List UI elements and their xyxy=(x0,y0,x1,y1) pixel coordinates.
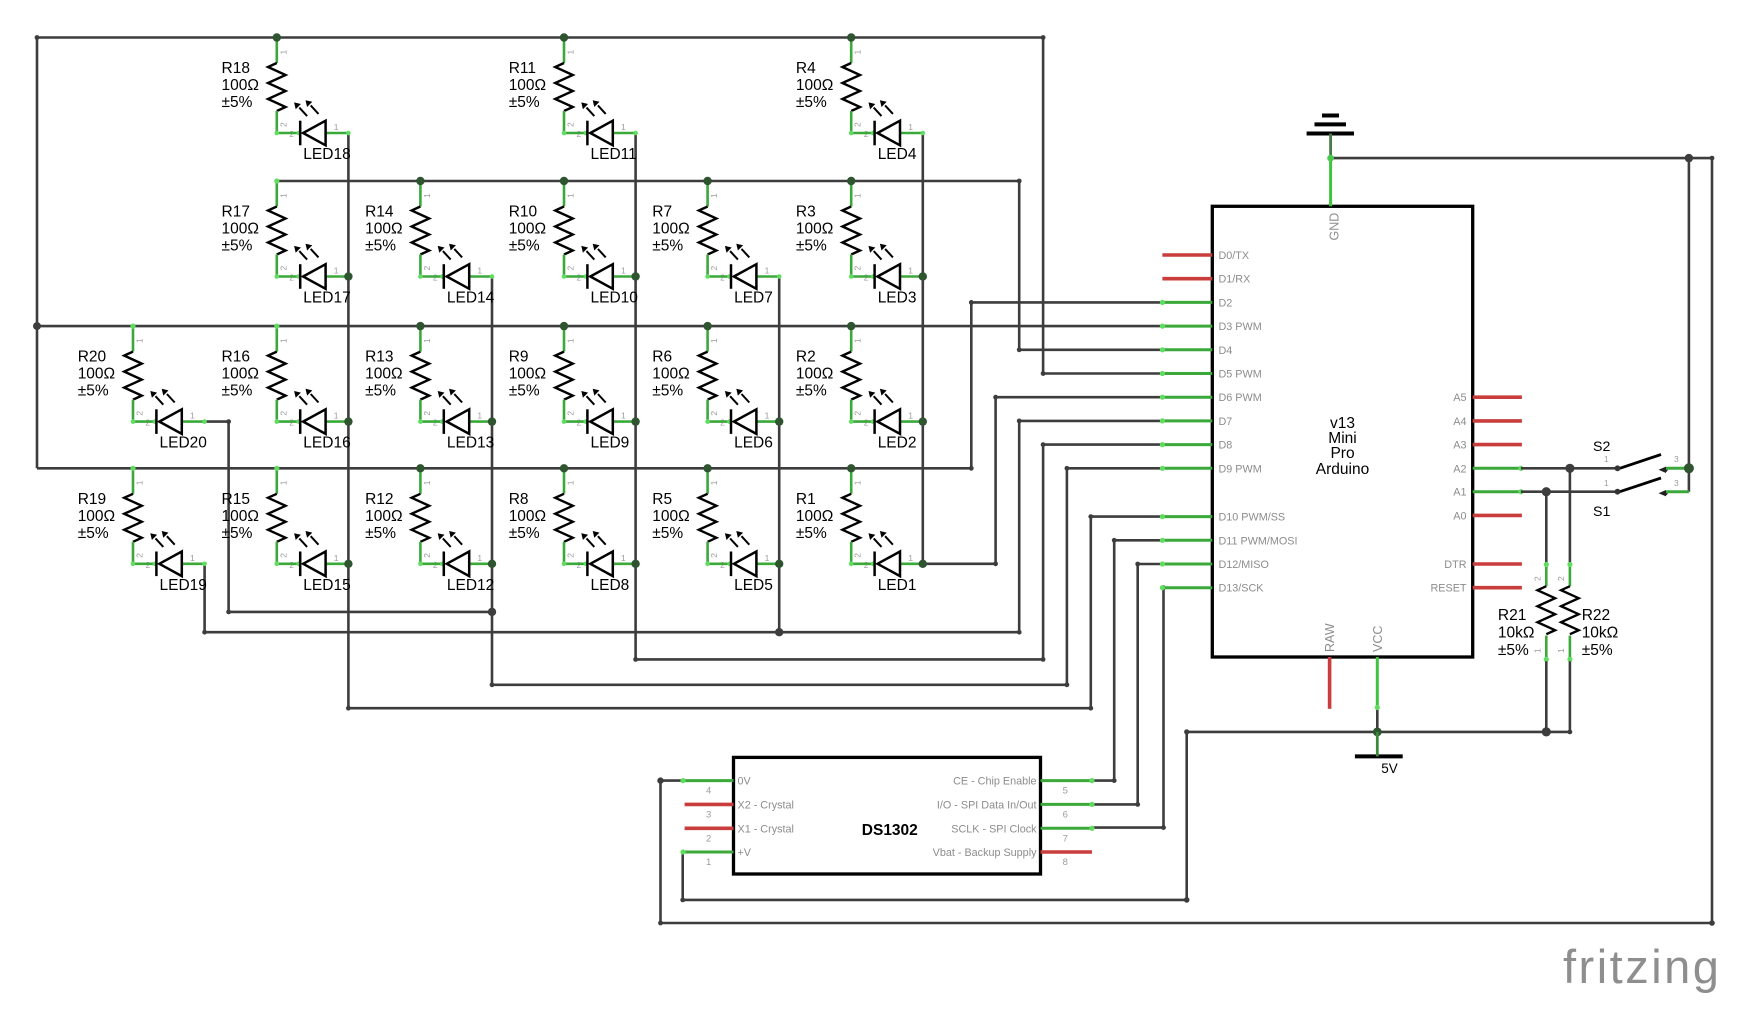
resistor R22 10k xyxy=(1556,468,1618,732)
svg-text:±5%: ±5% xyxy=(78,525,109,542)
LED LED6 xyxy=(705,389,781,452)
svg-text:±5%: ±5% xyxy=(222,383,253,400)
wire D2 to row4 rail xyxy=(969,300,1163,468)
pin D7 xyxy=(1160,416,1233,428)
svg-text:D11 PWM/MOSI: D11 PWM/MOSI xyxy=(1219,535,1298,547)
svg-text:±5%: ±5% xyxy=(222,525,253,542)
junction A1 / R21 xyxy=(1542,487,1551,496)
svg-text:100Ω: 100Ω xyxy=(796,221,833,238)
svg-text:1: 1 xyxy=(1604,454,1609,464)
svg-text:±5%: ±5% xyxy=(365,238,396,255)
svg-text:1: 1 xyxy=(422,338,432,343)
svg-text:LED16: LED16 xyxy=(303,435,350,452)
svg-text:A5: A5 xyxy=(1453,392,1466,404)
svg-text:LED18: LED18 xyxy=(303,146,350,163)
wire left bus vertical xyxy=(36,38,39,469)
pin A4 xyxy=(1453,416,1522,428)
pin D0/TX xyxy=(1162,250,1249,262)
LED LED7 xyxy=(705,244,781,307)
junction A2 / R22 xyxy=(1565,464,1574,473)
svg-text:100Ω: 100Ω xyxy=(509,221,546,238)
svg-text:D12/MISO: D12/MISO xyxy=(1219,559,1269,571)
junction GND wire xyxy=(1327,155,1334,162)
IC DS1302 RTC xyxy=(734,757,1041,874)
svg-text:R4: R4 xyxy=(796,60,816,77)
pin DS1302 5 CE - Chip Enable xyxy=(953,776,1095,797)
svg-text:A2: A2 xyxy=(1453,463,1466,475)
svg-text:±5%: ±5% xyxy=(365,383,396,400)
svg-text:2: 2 xyxy=(566,122,576,127)
svg-text:±5%: ±5% xyxy=(509,383,540,400)
wire D11 to DS1302 CE xyxy=(1092,538,1162,783)
svg-text:2: 2 xyxy=(1532,576,1542,581)
svg-text:1: 1 xyxy=(765,411,770,421)
svg-text:1: 1 xyxy=(477,411,482,421)
svg-text:LED4: LED4 xyxy=(878,146,917,163)
svg-text:2: 2 xyxy=(853,122,863,127)
svg-text:GND: GND xyxy=(1328,213,1342,241)
junction left bus / row3 rail xyxy=(33,322,41,330)
svg-text:RESET: RESET xyxy=(1431,583,1467,595)
svg-text:2: 2 xyxy=(853,266,863,271)
svg-text:1: 1 xyxy=(621,411,626,421)
resistor R14 xyxy=(365,178,438,282)
LED LED17 xyxy=(275,244,351,307)
svg-text:±5%: ±5% xyxy=(509,238,540,255)
svg-text:0V: 0V xyxy=(738,776,752,788)
svg-text:2: 2 xyxy=(566,553,576,558)
LED LED4 xyxy=(849,100,925,163)
svg-text:1: 1 xyxy=(765,553,770,563)
svg-text:1: 1 xyxy=(190,411,195,421)
svg-text:1: 1 xyxy=(706,857,711,868)
svg-text:LED15: LED15 xyxy=(303,577,350,594)
svg-text:100Ω: 100Ω xyxy=(652,366,689,383)
wire row2 rail net D4 xyxy=(277,179,1022,184)
svg-text:±5%: ±5% xyxy=(1582,642,1613,659)
svg-text:1: 1 xyxy=(278,193,288,198)
LED LED9 xyxy=(562,389,638,452)
svg-text:2: 2 xyxy=(706,833,711,844)
pin DS1302 8 Vbat - Backup Supply xyxy=(933,847,1092,868)
wire column5 anodes LED7-LED5 joins D7 line xyxy=(778,277,781,633)
wire D4 to row2 rail xyxy=(1017,181,1163,352)
switch S2 xyxy=(1521,439,1689,473)
LED LED10 xyxy=(562,244,639,307)
LED LED8 xyxy=(562,531,638,594)
svg-text:1: 1 xyxy=(566,338,576,343)
svg-text:2: 2 xyxy=(566,411,576,416)
junction R21 / 5V rail xyxy=(1542,727,1551,736)
svg-text:D0/TX: D0/TX xyxy=(1219,250,1250,262)
wire row4 rail net D2 xyxy=(37,466,974,471)
svg-text:±5%: ±5% xyxy=(796,94,827,111)
svg-text:1: 1 xyxy=(278,480,288,485)
svg-text:2: 2 xyxy=(709,266,719,271)
svg-text:1: 1 xyxy=(908,411,913,421)
wire GND net top xyxy=(657,156,1715,926)
svg-text:1: 1 xyxy=(566,193,576,198)
svg-text:100Ω: 100Ω xyxy=(365,366,402,383)
svg-text:A3: A3 xyxy=(1453,440,1466,452)
svg-text:S2: S2 xyxy=(1593,439,1610,455)
LED LED5 xyxy=(705,531,781,594)
svg-text:1: 1 xyxy=(1604,478,1609,488)
svg-text:Arduino: Arduino xyxy=(1316,461,1369,478)
wire column2 anodes LED18-LED15 to D10 xyxy=(346,133,1162,711)
svg-text:R22: R22 xyxy=(1582,607,1610,624)
svg-text:LED20: LED20 xyxy=(160,435,208,452)
svg-text:LED13: LED13 xyxy=(447,435,494,452)
resistor R11 xyxy=(509,35,582,139)
svg-text:X2 - Crystal: X2 - Crystal xyxy=(738,799,794,811)
pin GND xyxy=(1328,158,1342,240)
svg-text:1: 1 xyxy=(477,266,482,276)
wire 5V rail xyxy=(680,729,1570,902)
LED LED3 xyxy=(849,244,925,307)
LED LED13 xyxy=(418,389,494,452)
wire D5 to row1 rail xyxy=(1041,38,1163,376)
svg-text:100Ω: 100Ω xyxy=(365,508,402,525)
resistor R21 10k xyxy=(1498,492,1555,732)
svg-text:LED11: LED11 xyxy=(591,146,637,163)
svg-text:7: 7 xyxy=(1063,833,1068,844)
wire row1 rail net D5 xyxy=(35,35,1046,40)
svg-text:100Ω: 100Ω xyxy=(365,221,402,238)
resistor R17 xyxy=(222,178,295,282)
pin RAW xyxy=(1323,623,1337,709)
resistor R13 xyxy=(365,324,438,428)
svg-text:1: 1 xyxy=(621,266,626,276)
svg-text:VCC: VCC xyxy=(1371,626,1385,652)
pin A2 xyxy=(1453,463,1523,475)
wire switch common vertical xyxy=(1688,158,1691,492)
svg-text:1: 1 xyxy=(765,266,770,276)
resistor R16 xyxy=(222,324,295,428)
svg-text:6: 6 xyxy=(1063,809,1068,820)
pin DS1302 3 X2 - Crystal xyxy=(685,799,794,820)
svg-text:A0: A0 xyxy=(1453,510,1466,522)
pin DS1302 7 SCLK - SPI Clock xyxy=(951,823,1094,844)
ground symbol xyxy=(1307,116,1354,159)
svg-text:1: 1 xyxy=(190,553,195,563)
svg-text:100Ω: 100Ω xyxy=(222,366,259,383)
svg-text:±5%: ±5% xyxy=(796,525,827,542)
svg-text:100Ω: 100Ω xyxy=(652,508,689,525)
svg-text:2: 2 xyxy=(853,553,863,558)
pin A0 xyxy=(1453,510,1522,522)
svg-text:DS1302: DS1302 xyxy=(862,822,918,839)
svg-text:LED8: LED8 xyxy=(591,577,630,594)
svg-text:D5 PWM: D5 PWM xyxy=(1219,369,1262,381)
svg-text:R9: R9 xyxy=(509,349,529,366)
junction resistor tops on rails xyxy=(273,33,856,472)
svg-text:2: 2 xyxy=(135,553,145,558)
resistor R12 xyxy=(365,466,438,570)
resistor R1 xyxy=(796,466,869,570)
svg-text:R2: R2 xyxy=(796,349,816,366)
svg-text:1: 1 xyxy=(908,266,913,276)
svg-text:LED19: LED19 xyxy=(160,577,207,594)
svg-text:100Ω: 100Ω xyxy=(796,77,833,94)
svg-text:2: 2 xyxy=(566,266,576,271)
svg-text:I/O - SPI Data In/Out: I/O - SPI Data In/Out xyxy=(937,799,1037,811)
svg-text:D4: D4 xyxy=(1219,345,1233,357)
svg-text:100Ω: 100Ω xyxy=(652,221,689,238)
resistor R19 xyxy=(78,466,151,570)
pin D2 xyxy=(1160,297,1233,309)
svg-text:R10: R10 xyxy=(509,204,538,221)
svg-text:100Ω: 100Ω xyxy=(78,508,115,525)
junction VCC / 5V rail xyxy=(1373,728,1382,737)
junction LED anode columns xyxy=(344,272,927,568)
wire D12 to DS1302 I/O xyxy=(1092,562,1162,807)
resistor R9 xyxy=(509,324,582,428)
svg-text:LED1: LED1 xyxy=(878,577,917,594)
svg-text:D2: D2 xyxy=(1219,297,1233,309)
pin D13/SCK xyxy=(1160,583,1265,595)
svg-text:LED9: LED9 xyxy=(591,435,630,452)
svg-text:D3 PWM: D3 PWM xyxy=(1219,321,1262,333)
svg-text:S1: S1 xyxy=(1593,504,1610,520)
svg-text:±5%: ±5% xyxy=(365,525,396,542)
LED LED11 xyxy=(562,100,638,163)
pin D6 PWM xyxy=(1160,392,1262,404)
junction column5 / D7 line xyxy=(775,628,783,636)
pin DS1302 2 X1 - Crystal xyxy=(685,823,794,844)
svg-text:1: 1 xyxy=(334,411,339,421)
LED LED15 xyxy=(275,531,351,594)
svg-text:R7: R7 xyxy=(652,204,672,221)
pin DS1302 4 0V xyxy=(680,776,751,797)
svg-text:2: 2 xyxy=(278,411,288,416)
resistor R20 xyxy=(78,324,151,428)
svg-text:5: 5 xyxy=(1063,786,1068,797)
svg-text:±5%: ±5% xyxy=(796,238,827,255)
resistor R2 xyxy=(796,324,869,428)
junction GND / switch common xyxy=(1685,154,1693,162)
svg-text:1: 1 xyxy=(621,122,626,132)
svg-text:1: 1 xyxy=(278,338,288,343)
svg-text:R3: R3 xyxy=(796,204,816,221)
svg-text:LED2: LED2 xyxy=(878,435,917,452)
svg-text:2: 2 xyxy=(422,553,432,558)
svg-text:±5%: ±5% xyxy=(222,238,253,255)
svg-text:D7: D7 xyxy=(1219,416,1233,428)
LED LED12 xyxy=(418,531,494,594)
svg-text:±5%: ±5% xyxy=(222,94,253,111)
svg-text:1: 1 xyxy=(422,480,432,485)
svg-text:±5%: ±5% xyxy=(1498,642,1529,659)
svg-text:1: 1 xyxy=(853,193,863,198)
resistor R6 xyxy=(652,324,725,428)
svg-text:3: 3 xyxy=(706,809,711,820)
wire row3 rail net D3 xyxy=(37,325,1162,328)
resistor R7 xyxy=(652,178,725,282)
svg-text:100Ω: 100Ω xyxy=(509,77,546,94)
svg-text:1: 1 xyxy=(422,193,432,198)
svg-text:3: 3 xyxy=(1674,478,1679,488)
svg-text:1: 1 xyxy=(709,480,719,485)
pin D10 PWM/SS xyxy=(1160,512,1285,524)
svg-text:1: 1 xyxy=(709,338,719,343)
svg-text:RAW: RAW xyxy=(1323,623,1337,652)
svg-text:2: 2 xyxy=(278,553,288,558)
wire LED20 anode to column3 xyxy=(205,419,492,614)
svg-text:R20: R20 xyxy=(78,349,107,366)
pin D12/MISO xyxy=(1160,559,1269,571)
svg-text:LED7: LED7 xyxy=(734,290,773,307)
wire column6 anodes LED4-LED1 to D6 xyxy=(923,133,1163,566)
pin D3 PWM xyxy=(1160,321,1262,333)
svg-text:±5%: ±5% xyxy=(509,94,540,111)
svg-text:1: 1 xyxy=(566,480,576,485)
svg-text:R12: R12 xyxy=(365,491,393,508)
pin A5 xyxy=(1453,392,1522,404)
svg-text:2: 2 xyxy=(278,266,288,271)
svg-text:4: 4 xyxy=(706,786,711,797)
svg-text:fritzing: fritzing xyxy=(1563,940,1721,993)
svg-text:1: 1 xyxy=(853,480,863,485)
svg-text:R21: R21 xyxy=(1498,607,1526,624)
svg-text:R8: R8 xyxy=(509,491,529,508)
wire D13 to DS1302 SCLK xyxy=(1092,585,1166,830)
svg-text:1: 1 xyxy=(853,338,863,343)
svg-text:2: 2 xyxy=(709,553,719,558)
svg-text:100Ω: 100Ω xyxy=(78,366,115,383)
svg-text:D8: D8 xyxy=(1219,440,1233,452)
pin A3 xyxy=(1453,440,1522,452)
svg-text:2: 2 xyxy=(278,122,288,127)
svg-text:100Ω: 100Ω xyxy=(509,366,546,383)
svg-text:Vbat - Backup Supply: Vbat - Backup Supply xyxy=(933,847,1037,859)
svg-text:100Ω: 100Ω xyxy=(796,508,833,525)
pin D9 PWM xyxy=(1160,463,1262,475)
svg-text:LED6: LED6 xyxy=(734,435,773,452)
svg-text:100Ω: 100Ω xyxy=(222,508,259,525)
svg-text:R15: R15 xyxy=(222,491,250,508)
svg-text:D10 PWM/SS: D10 PWM/SS xyxy=(1219,512,1286,524)
svg-text:R19: R19 xyxy=(78,491,106,508)
svg-text:2: 2 xyxy=(422,411,432,416)
pin DS1302 6 I/O - SPI Data In/Out xyxy=(937,799,1095,820)
svg-text:100Ω: 100Ω xyxy=(509,508,546,525)
wire column4 anodes LED11-LED8 to D8 xyxy=(633,133,1162,662)
svg-text:±5%: ±5% xyxy=(652,383,683,400)
svg-text:100Ω: 100Ω xyxy=(222,221,259,238)
LED LED19 xyxy=(131,531,207,594)
svg-text:2: 2 xyxy=(1556,576,1566,581)
LED LED18 xyxy=(275,100,351,163)
svg-text:D9 PWM: D9 PWM xyxy=(1219,463,1262,475)
wire VCC to 5V xyxy=(1376,709,1379,732)
svg-text:100Ω: 100Ω xyxy=(222,77,259,94)
svg-text:A4: A4 xyxy=(1453,416,1466,428)
svg-text:1: 1 xyxy=(135,480,145,485)
LED LED1 xyxy=(849,531,925,594)
svg-text:1: 1 xyxy=(135,338,145,343)
svg-text:1: 1 xyxy=(566,50,576,55)
resistor R15 xyxy=(222,466,295,570)
svg-text:1: 1 xyxy=(621,553,626,563)
svg-text:D1/RX: D1/RX xyxy=(1219,274,1251,286)
wire LED19 anode to D7 xyxy=(202,419,1162,635)
pin D4 xyxy=(1160,345,1233,357)
LED LED16 xyxy=(275,389,351,452)
svg-text:CE - Chip Enable: CE - Chip Enable xyxy=(953,776,1036,788)
svg-text:2: 2 xyxy=(422,266,432,271)
pin A1 xyxy=(1453,487,1523,499)
pin D5 PWM xyxy=(1160,369,1262,381)
svg-text:±5%: ±5% xyxy=(652,238,683,255)
svg-text:1: 1 xyxy=(908,553,913,563)
svg-text:±5%: ±5% xyxy=(509,525,540,542)
svg-text:A1: A1 xyxy=(1453,487,1466,499)
junction LED20 line / column3 xyxy=(488,608,496,616)
svg-text:±5%: ±5% xyxy=(652,525,683,542)
IC Arduino Pro Mini v13 xyxy=(1212,206,1472,657)
svg-text:8: 8 xyxy=(1063,857,1068,868)
svg-text:LED14: LED14 xyxy=(447,290,495,307)
svg-text:1: 1 xyxy=(477,553,482,563)
svg-text:R16: R16 xyxy=(222,349,250,366)
svg-text:R5: R5 xyxy=(652,491,672,508)
svg-text:SCLK - SPI Clock: SCLK - SPI Clock xyxy=(951,823,1037,835)
svg-text:LED10: LED10 xyxy=(591,290,639,307)
svg-text:LED3: LED3 xyxy=(878,290,917,307)
svg-text:R18: R18 xyxy=(222,60,250,77)
LED LED2 xyxy=(849,389,925,452)
svg-text:1: 1 xyxy=(334,553,339,563)
pin D8 xyxy=(1160,440,1233,452)
switch S1 xyxy=(1521,478,1689,520)
resistor R3 xyxy=(796,178,869,282)
svg-text:D6 PWM: D6 PWM xyxy=(1219,392,1262,404)
resistor R18 xyxy=(222,35,295,139)
pin D1/RX xyxy=(1162,274,1250,286)
svg-text:1: 1 xyxy=(709,193,719,198)
svg-text:D13/SCK: D13/SCK xyxy=(1219,583,1265,595)
svg-text:±5%: ±5% xyxy=(796,383,827,400)
svg-text:±5%: ±5% xyxy=(78,383,109,400)
svg-text:DTR: DTR xyxy=(1444,559,1466,571)
svg-text:LED5: LED5 xyxy=(734,577,773,594)
svg-text:R6: R6 xyxy=(652,349,672,366)
svg-text:1: 1 xyxy=(1532,648,1542,653)
svg-text:1: 1 xyxy=(908,122,913,132)
svg-text:5V: 5V xyxy=(1381,761,1398,776)
svg-text:LED12: LED12 xyxy=(447,577,494,594)
pin DS1302 1 +V xyxy=(680,847,751,868)
svg-text:10kΩ: 10kΩ xyxy=(1582,625,1619,642)
svg-text:R14: R14 xyxy=(365,204,394,221)
pin D11 PWM/MOSI xyxy=(1160,535,1298,547)
svg-text:1: 1 xyxy=(278,50,288,55)
svg-text:R13: R13 xyxy=(365,349,393,366)
svg-text:+V: +V xyxy=(738,847,752,859)
svg-text:1: 1 xyxy=(1556,648,1566,653)
resistor R10 xyxy=(509,178,582,282)
resistor R5 xyxy=(652,466,725,570)
svg-text:R1: R1 xyxy=(796,491,816,508)
svg-text:3: 3 xyxy=(1674,454,1679,464)
pin RESET xyxy=(1431,583,1522,595)
svg-text:LED17: LED17 xyxy=(303,290,350,307)
pin VCC xyxy=(1371,626,1385,711)
wire column3 anodes LED14-LED12 to D9 xyxy=(490,277,1163,688)
svg-text:R11: R11 xyxy=(509,60,536,77)
power symbol 5V xyxy=(1355,732,1403,776)
